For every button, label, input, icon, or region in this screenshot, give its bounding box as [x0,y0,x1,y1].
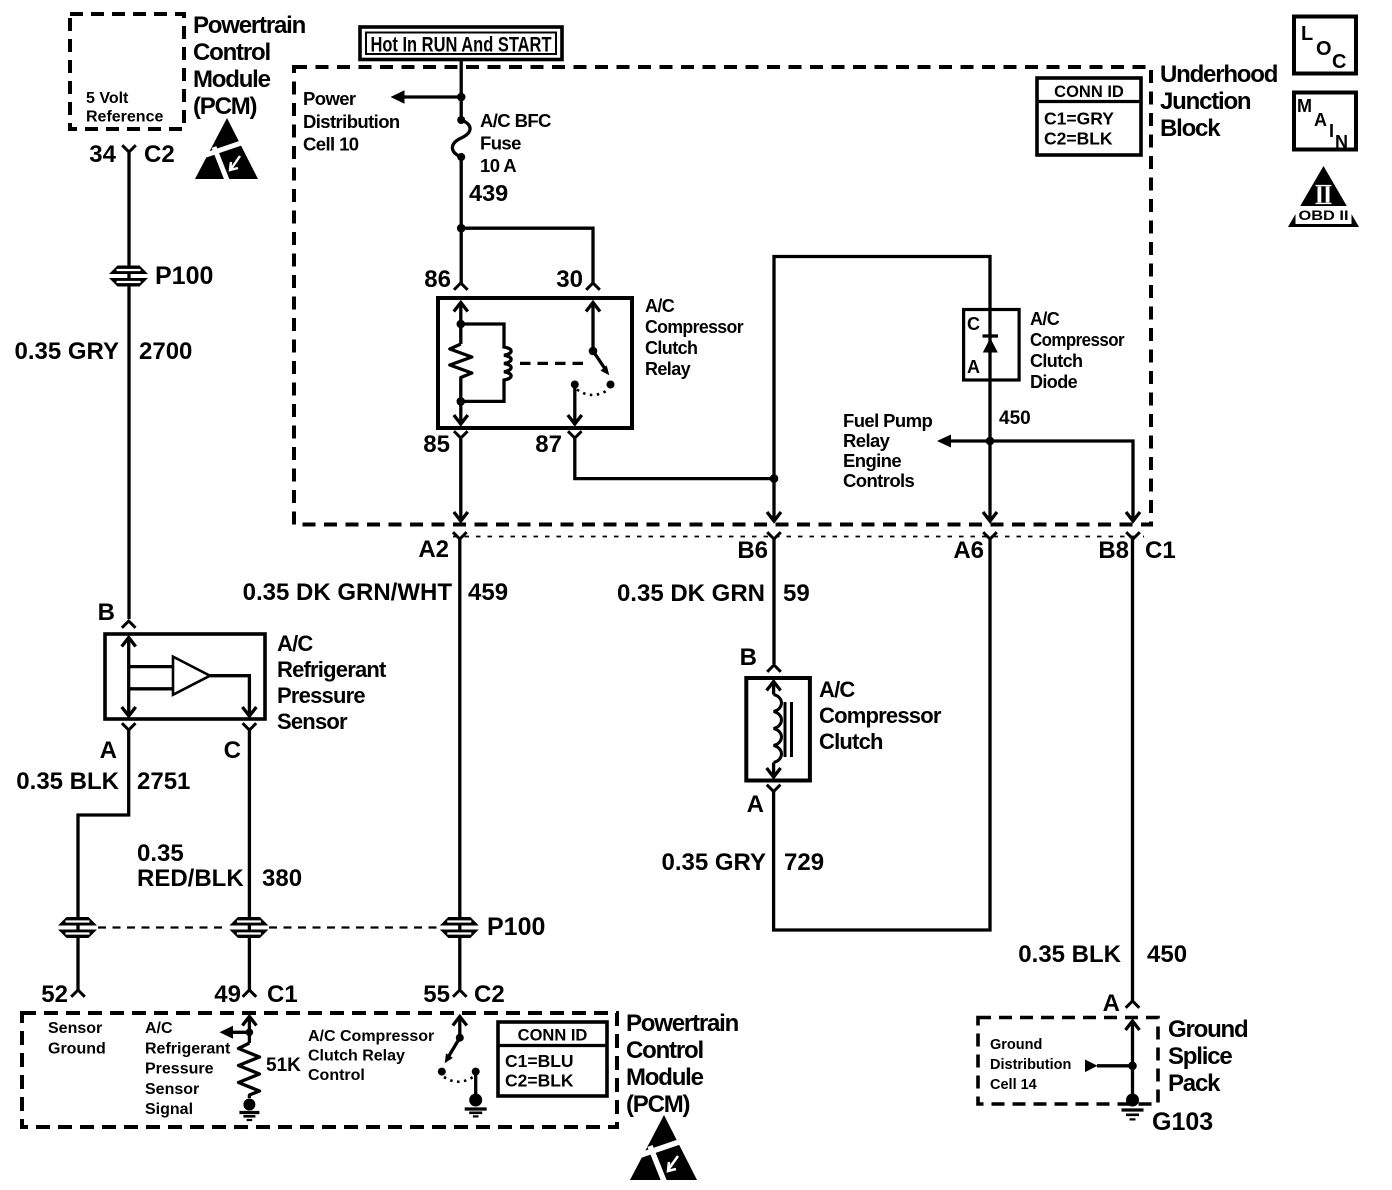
svg-text:Distribution: Distribution [303,111,400,132]
PCM 49 input with up arrow [242,1017,256,1044]
label 450 inside block [999,408,1031,429]
svg-text:Refrigerant: Refrigerant [277,657,387,682]
splice on wire 380 at P100 [229,917,268,938]
svg-text:Reference: Reference [86,109,163,126]
svg-text:0.35 GRY: 0.35 GRY [662,849,767,876]
label A/C Compressor Clutch Relay [645,296,744,379]
switch S1 arm [445,1038,460,1064]
svg-text:A: A [747,791,764,818]
resistor R2 51K [239,1043,260,1098]
wire 450 BLK from B8 to ground splice pack [1131,539,1134,1001]
svg-text:P100: P100 [155,262,213,290]
svg-text:Engine: Engine [843,450,901,471]
svg-text:Controls: Controls [843,470,915,491]
diode D1 wire through box [988,310,991,442]
switch S1 fixed contact [472,1068,480,1094]
label A/C Refrigerant Pressure Sensor [277,631,387,734]
wire 380 RED/BLK from sensor C to PCM 49 [248,730,251,990]
wire relay 87 to B6 net [575,438,774,479]
svg-text:Signal: Signal [145,1101,193,1118]
pin 87 label [535,431,562,458]
pin A label [100,737,117,764]
junction block connector C1 thin dashed line [453,536,1144,538]
svg-text:459: 459 [468,579,508,606]
ground under switch S1 [465,1094,487,1117]
pin A2 label [418,536,449,563]
connector fork at block pin B8 [1126,532,1140,539]
svg-text:C: C [1332,51,1346,73]
A/C refrigerant pressure sensor box [105,634,265,719]
svg-text:0.35 DK GRN/WHT: 0.35 DK GRN/WHT [243,579,453,606]
svg-text:M: M [1297,96,1312,116]
svg-text:86: 86 [424,266,451,293]
op-amp U1 inside pressure sensor [129,657,257,716]
svg-text:A/C BFC: A/C BFC [480,110,551,131]
branch wire to Power Distribution [404,95,461,98]
ground under resistor R2 [239,1099,259,1121]
splice on wire 2751 at P100 [58,917,97,938]
label 0.35 GRY 2700 [15,338,193,365]
node relay coil top [457,320,466,329]
svg-text:Control: Control [193,39,270,66]
label A/C Refrigerant Pressure Sensor Signal [145,1020,231,1118]
svg-text:Compressor: Compressor [645,317,744,337]
svg-text:A: A [1314,110,1327,130]
svg-text:59: 59 [783,580,810,607]
pin 34 label [89,141,116,168]
splice P100 on wire 2700 [109,266,148,287]
connector fork at clutch pin B [767,665,781,672]
A/C compressor clutch diode box [964,310,1020,381]
svg-text:Clutch: Clutch [819,729,883,754]
svg-text:A/C: A/C [1030,309,1060,329]
wire B6 net vertical and top loop [774,257,990,520]
ESD sensitivity symbol bottom [630,1115,697,1181]
arrow B8 at block border [1126,512,1140,521]
connector fork at relay pin 85 [454,431,468,438]
label Power Distribution Cell 10 [303,88,400,155]
pin C label [224,737,241,764]
svg-text:55: 55 [423,981,450,1008]
svg-text:A2: A2 [418,536,449,563]
svg-text:Clutch: Clutch [645,338,697,358]
relay coil L1 [461,324,511,401]
pin C1 label right [1145,537,1176,564]
label P100 bottom [487,913,545,941]
svg-text:Sensor: Sensor [277,709,348,734]
svg-text:Compressor: Compressor [819,703,942,728]
pin C2 label bottom [474,981,505,1008]
connector fork at splice pack pin A [1126,1001,1140,1008]
svg-text:Module: Module [626,1064,704,1091]
svg-text:C1=BLU: C1=BLU [505,1051,574,1071]
connector fork at block pin A2 [453,532,467,539]
svg-text:380: 380 [262,865,302,892]
relay switch arm [593,351,609,375]
svg-text:C: C [967,314,980,334]
svg-text:Ground: Ground [48,1041,106,1058]
svg-text:A: A [967,357,980,377]
dashed connector line P100 [98,926,438,928]
svg-text:G103: G103 [1152,1108,1213,1136]
svg-text:C2: C2 [144,141,175,168]
wire from Hot In feed down to fuse [460,60,463,121]
relay coil input line with up arrow [454,303,468,345]
svg-text:0.35: 0.35 [137,840,184,867]
label 5 Volt Reference [86,90,163,126]
splice P100 on wire 459 [440,917,479,938]
label 0.35 DK GRN 59 [617,580,810,607]
node feed junction [457,93,466,102]
label 439 [469,180,508,206]
svg-text:Clutch: Clutch [1030,351,1082,371]
svg-text:30: 30 [556,266,583,293]
svg-text:Ground: Ground [1168,1016,1248,1043]
node branch to relay 30 [457,224,466,233]
svg-text:Power: Power [303,88,356,109]
pin A label splice pack [1103,990,1120,1017]
svg-text:(PCM): (PCM) [193,93,257,120]
svg-text:C2=BLK: C2=BLK [505,1071,574,1091]
svg-text:C1: C1 [1145,537,1176,564]
svg-text:Cell 10: Cell 10 [303,134,359,155]
svg-text:C2: C2 [474,981,505,1008]
label 0.35 BLK 450 [1018,941,1187,968]
A/C compressor clutch relay box [438,298,632,428]
svg-text:0.35 DK GRN: 0.35 DK GRN [617,580,765,607]
switch S1 moving contact [438,1068,446,1076]
label 0.35 DK GRN/WHT 459 [243,579,508,606]
MAIN legend box [1294,93,1356,153]
pin C2 label [144,141,175,168]
CONN ID table top [1037,78,1141,155]
svg-text:Fuse: Fuse [480,133,521,154]
svg-text:Splice: Splice [1168,1043,1232,1070]
wire 729 GRY clutch A to block A6 [774,539,990,930]
pin A label clutch [747,791,764,818]
OBD II symbol [1288,166,1359,227]
svg-text:Relay: Relay [843,430,891,451]
svg-text:C2=BLK: C2=BLK [1044,129,1113,149]
relay 87 contact and line [568,381,582,425]
pin B6 label [737,537,768,564]
label Hot In RUN And START [371,34,552,57]
PCM 5 Volt Reference dashed box [70,14,184,129]
label 0.35 BLK 2751 [16,768,190,795]
PCM bottom dashed box [22,1013,617,1127]
label 0.35 GRY 729 [662,849,825,876]
node 87/B6 junction [770,474,779,483]
relay armature dashed link [520,362,587,365]
svg-text:Block: Block [1160,115,1221,142]
svg-text:5 Volt: 5 Volt [86,90,129,107]
svg-text:Ground: Ground [990,1037,1042,1053]
wire 450 horizontal to B8 [951,441,1133,519]
pin 55 label [423,981,450,1008]
wire A6 stem [988,441,991,519]
svg-text:(PCM): (PCM) [626,1091,690,1118]
svg-text:2700: 2700 [139,338,192,365]
svg-text:Diode: Diode [1030,372,1078,392]
label 51K [266,1055,301,1076]
pin B label clutch [740,644,757,671]
CONN ID table bottom [498,1022,607,1096]
label A/C Compressor Clutch [819,677,942,754]
svg-text:Module: Module [193,66,271,93]
pin B label [98,599,115,626]
diode terminal A label [967,357,980,377]
svg-text:OBD II: OBD II [1299,207,1349,223]
relay switch dotted travel arc [577,390,609,396]
connector fork at relay pin 87 [568,431,582,438]
svg-text:Pressure: Pressure [145,1061,214,1078]
fuse F1 A/C BFC 10A [452,116,470,161]
arrow to Fuel Pump Relay [937,435,951,448]
pin 52 label [41,981,68,1008]
svg-text:B: B [740,644,757,671]
label A/C Compressor Clutch Relay Control [308,1028,434,1084]
A/C compressor clutch box [746,678,810,781]
svg-text:Sensor: Sensor [145,1081,199,1098]
svg-text:85: 85 [423,431,450,458]
svg-text:CONN ID: CONN ID [518,1027,588,1045]
pin B8 label [1098,537,1129,564]
svg-text:52: 52 [41,981,68,1008]
ground G103 [1122,1094,1144,1120]
connector fork at PCM pin 55 [453,990,467,997]
svg-text:Junction: Junction [1160,88,1251,115]
svg-text:Hot In RUN And START: Hot In RUN And START [371,34,552,57]
svg-text:49: 49 [214,981,241,1008]
node 49 branch [246,1029,254,1037]
connector fork at block pin B6 [767,532,781,539]
connector fork at relay pin 30 [586,283,600,290]
svg-text:O: O [1316,38,1332,60]
wire 439 fuse to relay 86 [460,157,463,283]
branch to Ground Distribution Cell 14 [1085,1060,1133,1073]
splice pack internal wire with up arrow [1126,1021,1140,1100]
svg-text:450: 450 [999,408,1031,429]
Hot In RUN And START box [360,27,562,60]
switch S1 dotted travel arc [444,1077,473,1082]
pin 30 label [556,266,583,293]
wire relay 85 to block pin A2 [454,438,468,521]
svg-text:A: A [100,737,117,764]
svg-text:B6: B6 [737,537,768,564]
pin 86 label [424,266,451,293]
svg-text:Powertrain: Powertrain [193,12,306,39]
svg-text:A/C: A/C [277,631,313,656]
arrow to Power Distribution Cell 10 [391,90,405,103]
connector fork at PCM pin 49 [243,990,257,997]
arrow A6 at block border [983,512,997,521]
label Ground Distribution Cell 14 [990,1037,1071,1093]
svg-text:Sensor: Sensor [48,1020,102,1037]
label G103 [1152,1108,1213,1136]
svg-text:0.35 BLK: 0.35 BLK [1018,941,1121,968]
connector fork at block pin A6 [983,532,997,539]
svg-text:Relay: Relay [645,359,691,379]
svg-text:87: 87 [535,431,562,458]
label Ground Splice Pack [1168,1016,1248,1097]
switch S1 pivot [456,1034,464,1042]
svg-text:RED/BLK: RED/BLK [137,865,244,892]
Ground Splice Pack dashed box [978,1018,1158,1105]
wire 2751 BLK from sensor A to PCM 52 [78,730,129,990]
label Powertrain Control Module (PCM) top [193,12,306,120]
svg-text:Pressure: Pressure [277,683,365,708]
node relay coil bottom [457,397,466,406]
relay switch throw contact [607,381,615,389]
ESD sensitivity symbol top [195,118,258,180]
connector fork at sensor pin C [243,723,257,730]
connector fork at clutch pin A [767,785,781,792]
svg-text:Underhood: Underhood [1160,61,1278,88]
connector fork at sensor pin B [122,621,136,628]
relay 85 line with down arrow [454,401,468,424]
pin 49 label [214,981,241,1008]
svg-text:B8: B8 [1098,537,1129,564]
connector fork at relay pin 86 [454,283,468,290]
label Powertrain Control Module (PCM) bottom [626,1010,739,1118]
diode D1 symbol [983,336,999,353]
clutch coil L2 with arrows [767,682,782,778]
wire 2700 GRY from PCM-34 to pressure sensor B [127,152,130,619]
svg-text:C: C [224,737,241,764]
svg-text:Cell 14: Cell 14 [990,1077,1037,1093]
arrow B6 at block border [767,512,781,521]
svg-text:729: 729 [784,849,824,876]
svg-text:51K: 51K [266,1055,301,1076]
sensor internal left line with arrows [122,638,136,717]
connector fork at sensor pin A [122,723,136,730]
svg-text:A6: A6 [953,537,984,564]
PCM 55 input with up arrow [453,1017,467,1038]
label A/C BFC Fuse 10 A [480,110,551,176]
svg-text:2751: 2751 [137,768,190,795]
pin C1 label bottom [267,981,298,1008]
diode terminal C label [967,314,980,334]
connector fork at PCM pin 52 [71,990,85,997]
svg-text:Control: Control [626,1037,703,1064]
LOC legend box [1294,17,1356,74]
svg-text:C1: C1 [267,981,298,1008]
resistor R1 inside relay [450,344,472,401]
svg-text:34: 34 [89,141,116,168]
svg-text:Clutch Relay: Clutch Relay [308,1048,405,1065]
svg-text:I: I [1329,121,1334,141]
node ground distribution junction [1128,1062,1137,1071]
wire branch to relay pin 30 [461,228,593,283]
Underhood Junction Block dashed border [294,67,1151,525]
svg-text:A/C: A/C [145,1020,173,1037]
svg-text:Refrigerant: Refrigerant [145,1040,231,1057]
wire 59 from B6 to clutch B [772,539,775,664]
svg-text:0.35 GRY: 0.35 GRY [15,338,120,365]
svg-text:10 A: 10 A [480,155,516,176]
svg-text:P100: P100 [487,913,545,941]
label Fuel Pump Relay Engine Controls [843,410,932,491]
svg-text:B: B [98,599,115,626]
pin A6 label [953,537,984,564]
label P100 top [155,262,213,290]
svg-text:A: A [1103,990,1120,1017]
svg-text:450: 450 [1147,941,1187,968]
svg-text:A/C Compressor: A/C Compressor [308,1028,434,1045]
svg-text:C1=GRY: C1=GRY [1044,109,1114,129]
svg-text:Control: Control [308,1067,365,1084]
pin 85 label [423,431,450,458]
svg-text:Fuel Pump: Fuel Pump [843,410,932,431]
svg-text:A/C: A/C [819,677,855,702]
relay switch contact 30 [586,303,600,356]
label A/C Compressor Clutch Diode [1030,309,1125,392]
label Underhood Junction Block [1160,61,1278,142]
wire 459 DK GRN/WHT from junction block A2 to PCM 55 [458,539,461,990]
svg-text:CONN ID: CONN ID [1054,83,1124,101]
node diode/450 junction [986,437,995,446]
svg-text:N: N [1335,132,1348,152]
label 0.35 RED/BLK 380 [137,840,302,892]
branch arrow A/C pressure signal [220,1026,250,1039]
clutch plates [785,702,792,757]
svg-text:439: 439 [469,180,508,206]
svg-text:L: L [1301,23,1313,45]
svg-text:Compressor: Compressor [1030,330,1125,350]
svg-text:Powertrain: Powertrain [626,1010,739,1037]
svg-text:Pack: Pack [1168,1070,1221,1097]
label Sensor Ground [48,1020,106,1058]
connector fork at PCM pin 34 [122,145,136,152]
svg-text:A/C: A/C [645,296,675,316]
svg-text:Distribution: Distribution [990,1057,1071,1073]
svg-text:0.35 BLK: 0.35 BLK [16,768,119,795]
